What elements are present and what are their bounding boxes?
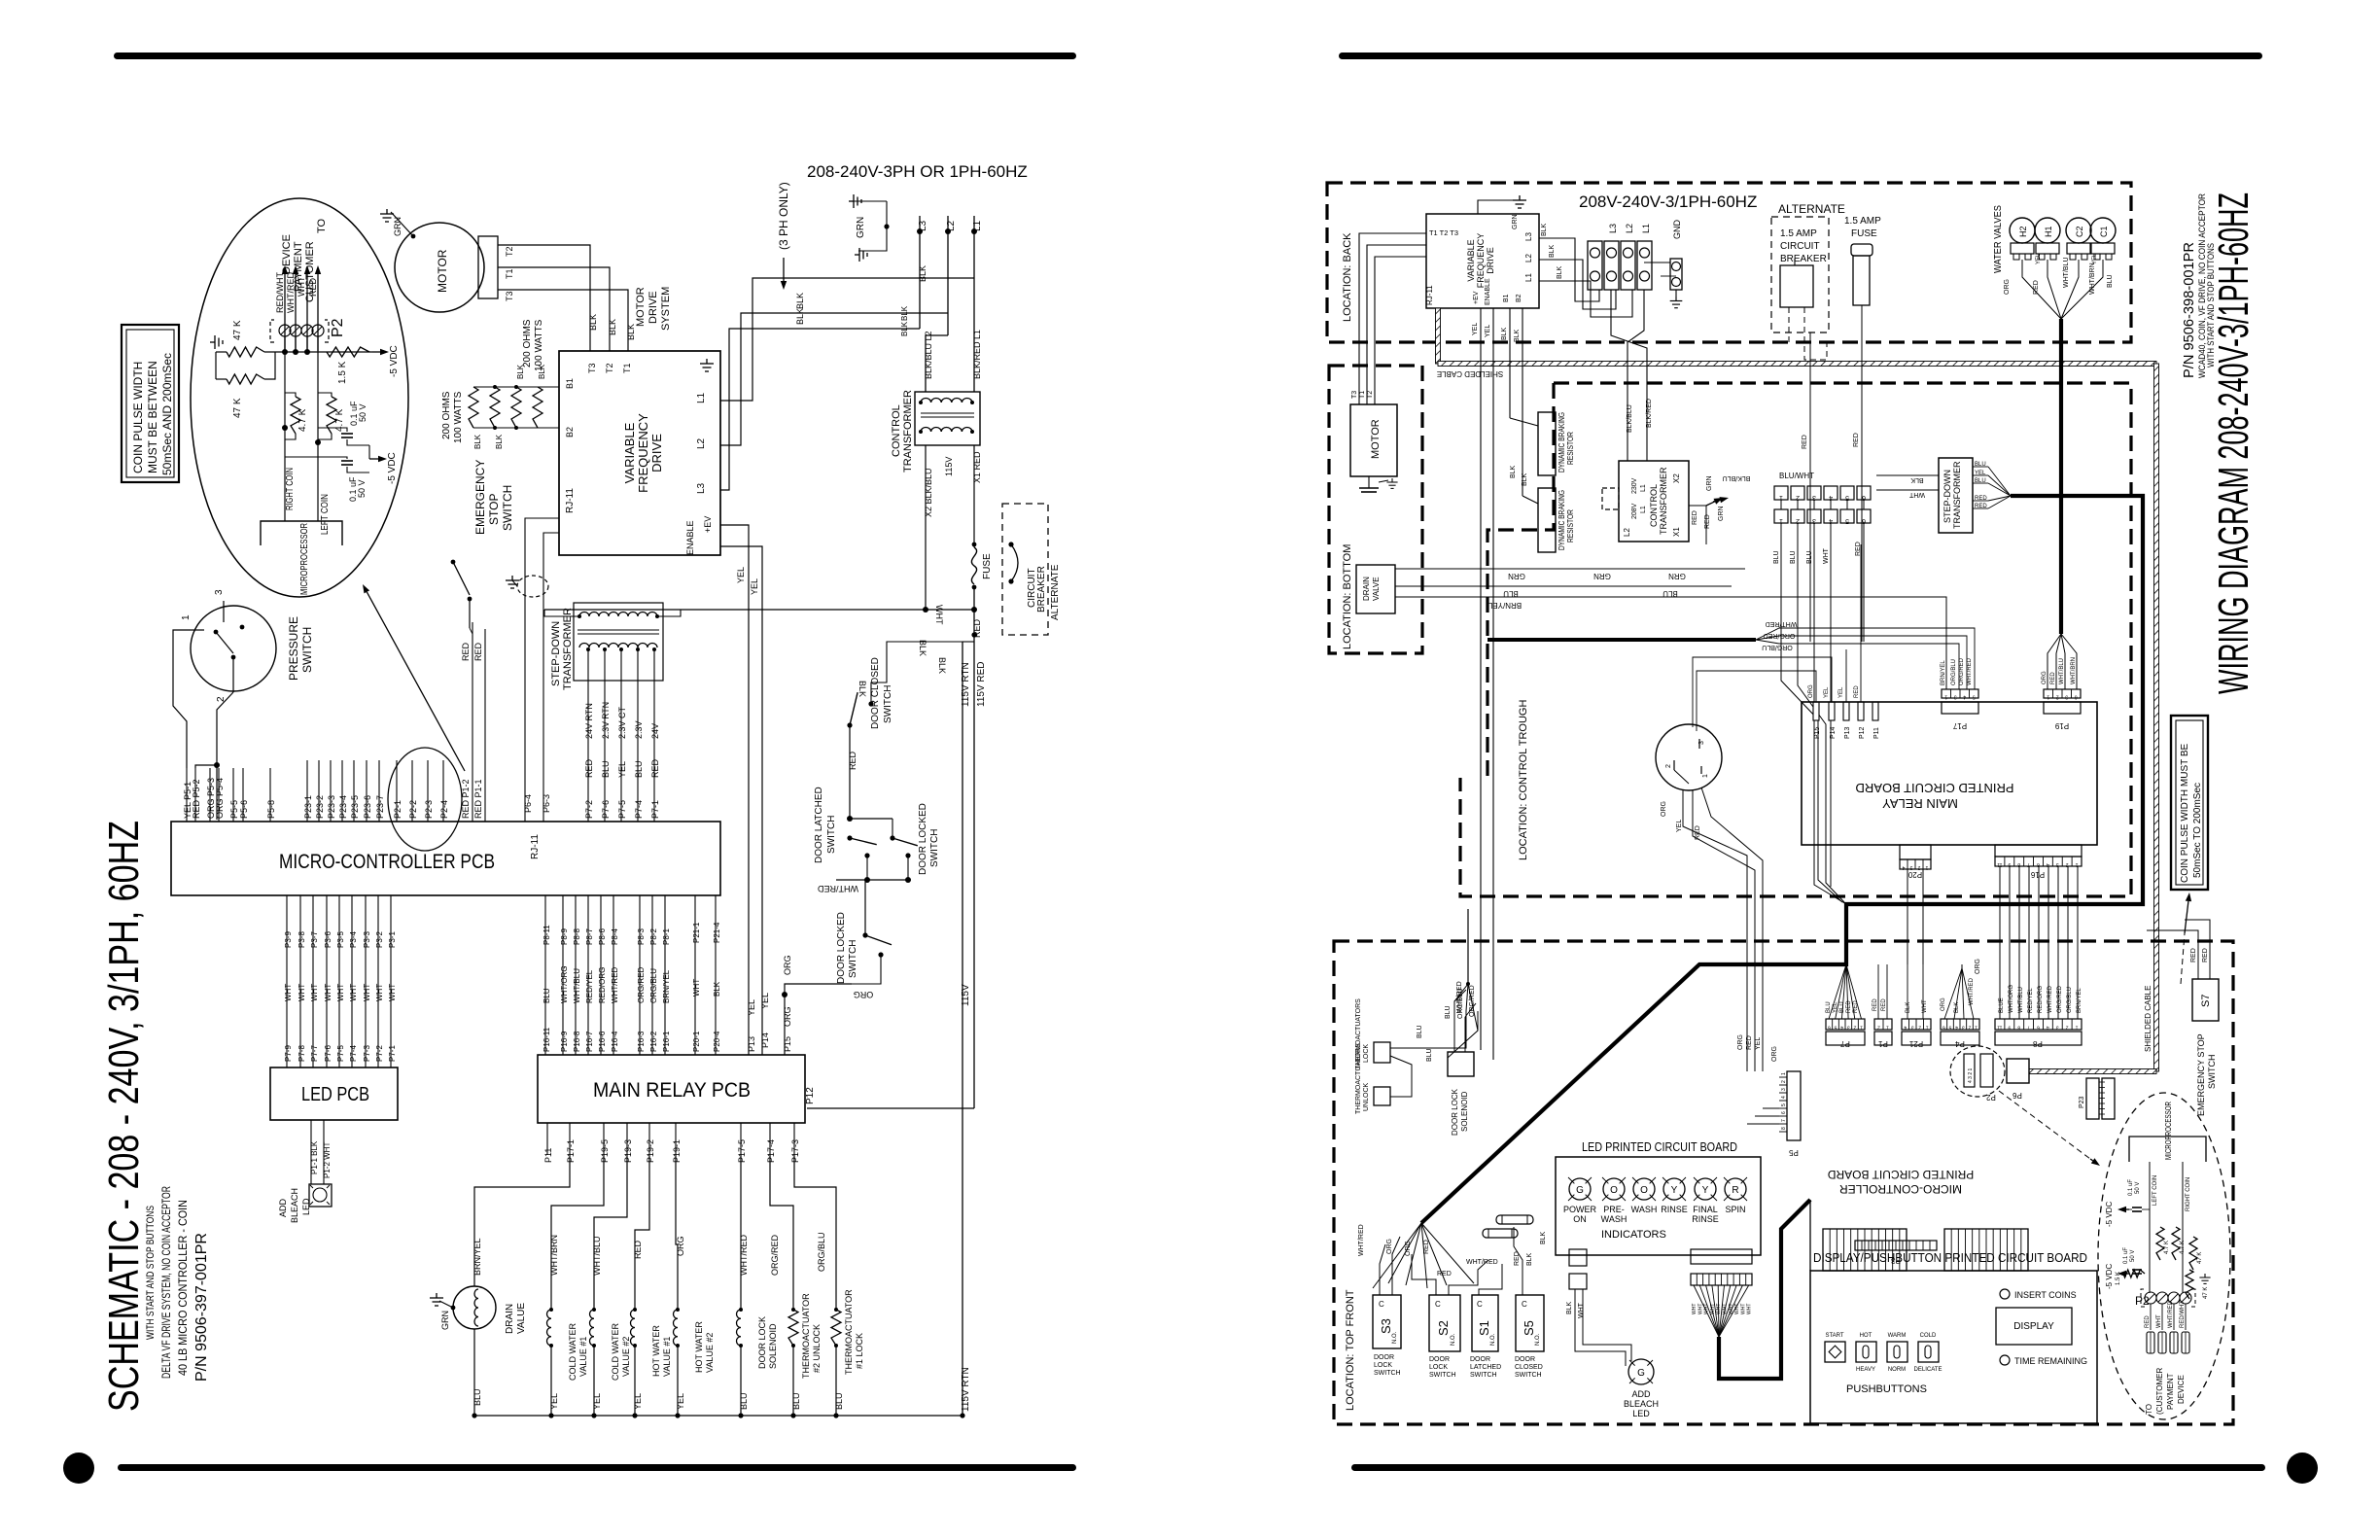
time remaining indicator	[2000, 1355, 2010, 1365]
svg-text:ORG/RED: ORG/RED	[1469, 985, 1476, 1017]
svg-text:YEL: YEL	[1485, 325, 1491, 337]
svg-text:BLK: BLK	[1954, 1002, 1960, 1013]
svg-text:GRN: GRN	[1706, 475, 1713, 491]
svg-text:BLK: BLK	[1541, 223, 1548, 236]
svg-text:RINSE: RINSE	[1661, 1205, 1688, 1214]
svg-text:P17-1: P17-1	[566, 1139, 576, 1163]
P16 to P8 wire bundle	[1999, 866, 2001, 1019]
svg-text:P2-4: P2-4	[439, 800, 449, 819]
wires P2 to resistor network	[284, 336, 286, 352]
terminal strip 1-6 row B	[1774, 509, 1788, 523]
connector P17	[1942, 689, 1978, 698]
svg-text:DRIVE: DRIVE	[647, 291, 659, 324]
svg-text:WHT/RED: WHT/RED	[1466, 1259, 1498, 1266]
svg-text:50mSec AND 200mSec: 50mSec AND 200mSec	[160, 353, 174, 475]
svg-text:P2: P2	[330, 318, 346, 337]
svg-text:BLK: BLK	[1522, 472, 1528, 486]
svg-text:BLU: BLU	[1839, 1001, 1845, 1013]
svg-text:DOOR: DOOR	[1374, 1354, 1394, 1361]
svg-text:WHT/BLU: WHT/BLU	[2018, 987, 2024, 1013]
svg-text:BLK: BLK	[937, 657, 947, 674]
svg-text:BLU: BLU	[1503, 589, 1519, 598]
payment capacitors (wiring)	[2132, 1207, 2142, 1208]
svg-text:ENABLE: ENABLE	[685, 520, 695, 555]
svg-text:4: 4	[2047, 1025, 2049, 1031]
heavy harness from step-down	[1421, 496, 2143, 1223]
pushbutton START	[1825, 1342, 1845, 1362]
svg-text:LOCK: LOCK	[1363, 1044, 1370, 1063]
svg-text:WHT: WHT	[284, 984, 293, 1001]
connector P8	[1995, 1019, 2082, 1030]
wire WHT horizontal	[544, 609, 974, 611]
hot water valve 1 branch	[635, 1155, 649, 1310]
svg-text:3: 3	[2056, 1025, 2059, 1031]
svg-text:BRN/YEL: BRN/YEL	[472, 1238, 482, 1276]
svg-text:ORG: ORG	[1405, 1241, 1412, 1256]
svg-text:2: 2	[1877, 1025, 1880, 1031]
thermoactuators unlock	[1374, 1087, 1390, 1105]
svg-text:P6-3: P6-3	[542, 794, 551, 813]
step-down outputs BLU YEL BLU RED RED	[1973, 466, 1988, 468]
svg-text:(3 PH ONLY): (3 PH ONLY)	[777, 182, 790, 250]
svg-text:RED/ORG: RED/ORG	[598, 967, 607, 1003]
svg-text:WHT: WHT	[1692, 1304, 1697, 1314]
rail jog to control transformer	[926, 335, 948, 392]
svg-text:6: 6	[2037, 1025, 2040, 1031]
svg-text:C: C	[1435, 1300, 1441, 1309]
svg-text:L1: L1	[1641, 224, 1651, 233]
svg-text:COLD: COLD	[1920, 1333, 1937, 1339]
svg-text:P2-1: P2-1	[393, 800, 402, 819]
svg-text:WHT: WHT	[1578, 1302, 1585, 1318]
ground terminal GND	[1670, 259, 1682, 290]
svg-text:T1: T1	[622, 363, 632, 373]
bundle P21/P20	[694, 895, 696, 1055]
svg-text:5: 5	[1845, 494, 1849, 501]
svg-text:P21-4: P21-4	[713, 922, 721, 943]
svg-text:SCHEMATIC - 208 - 240V, 3: SCHEMATIC - 208 - 240V, 3/1PH, 60HZ	[100, 821, 148, 1412]
svg-text:BLK/BLU: BLK/BLU	[1723, 474, 1751, 481]
svg-text:#2 UNLOCK: #2 UNLOCK	[812, 1324, 822, 1373]
svg-text:1: 1	[1926, 1025, 1929, 1031]
svg-text:3: 3	[1698, 741, 1705, 745]
svg-text:P7-6: P7-6	[601, 800, 611, 819]
svg-text:P20: P20	[1907, 870, 1922, 879]
svg-text:SWITCH: SWITCH	[848, 940, 858, 978]
svg-text:MAIN RELAY PCB: MAIN RELAY PCB	[593, 1079, 751, 1102]
svg-text:T1 T2 T3: T1 T2 T3	[1429, 230, 1458, 237]
svg-text:50 V: 50 V	[2135, 1182, 2141, 1194]
svg-text:DELTA VF DRIVE SYSTEM, NO COIN: DELTA VF DRIVE SYSTEM, NO COIN ACCEPTOR	[159, 1186, 173, 1379]
arrow to coin pulse box	[2181, 933, 2185, 984]
svg-text:P/N 9506-398-001PR: P/N 9506-398-001PR	[2181, 242, 2197, 378]
svg-text:MAIN RELAY: MAIN RELAY	[1882, 796, 1958, 811]
svg-text:INDICATORS: INDICATORS	[1601, 1229, 1666, 1241]
svg-text:WHT/ORG: WHT/ORG	[560, 965, 569, 1003]
svg-text:YEL: YEL	[1472, 323, 1479, 335]
svg-text:G: G	[1576, 1185, 1584, 1196]
svg-text:STOP: STOP	[487, 494, 501, 525]
svg-text:2: 2	[1853, 1025, 1856, 1031]
wires right/left coin	[284, 352, 286, 521]
svg-text:RED: RED	[308, 277, 318, 297]
terminal strip lower wires	[1780, 523, 1782, 593]
svg-text:RED: RED	[1854, 685, 1860, 698]
svg-text:C: C	[1477, 1300, 1483, 1309]
wire RED door chain	[849, 725, 851, 819]
svg-text:208V-240V-3/1PH-60HZ: 208V-240V-3/1PH-60HZ	[1579, 192, 1757, 211]
svg-text:P19-1: P19-1	[672, 1139, 682, 1163]
svg-text:BLK: BLK	[1501, 327, 1508, 340]
VFD to motor wires T1 T2 T3	[1359, 233, 1426, 404]
svg-text:P17-3: P17-3	[790, 1139, 800, 1163]
svg-text:TRANSFORMER: TRANSFORMER	[1952, 461, 1962, 529]
svg-text:RED: RED	[2190, 948, 2197, 962]
svg-text:DEVICE: DEVICE	[2177, 1375, 2186, 1404]
svg-text:WHT/RED: WHT/RED	[2047, 985, 2053, 1013]
svg-text:#1 LOCK: #1 LOCK	[855, 1333, 864, 1369]
svg-text:YEL: YEL	[747, 999, 756, 1016]
svg-text:WHT/BLU: WHT/BLU	[573, 968, 581, 1003]
svg-text:VARIABLE: VARIABLE	[622, 422, 637, 483]
svg-text:L1: L1	[1640, 506, 1647, 513]
svg-text:1: 1	[1925, 864, 1928, 870]
svg-text:208V: 208V	[1631, 503, 1638, 519]
svg-text:FUSE: FUSE	[982, 553, 993, 579]
svg-text:1: 1	[1944, 694, 1947, 700]
svg-text:RIGHT COIN: RIGHT COIN	[2186, 1177, 2191, 1211]
svg-text:COIN PULSE WIDTH: COIN PULSE WIDTH	[131, 362, 145, 473]
svg-text:DOOR LOCK: DOOR LOCK	[1451, 1088, 1459, 1136]
svg-text:LEFT COIN: LEFT COIN	[320, 494, 331, 535]
motor ground (wiring)	[1368, 476, 1370, 488]
svg-text:LED: LED	[1632, 1409, 1650, 1418]
svg-text:MICRO-CONTROLLER PCB: MICRO-CONTROLLER PCB	[279, 851, 495, 873]
svg-text:LED PRINTED CIRCUIT BOARD: LED PRINTED CIRCUIT BOARD	[1582, 1139, 1737, 1154]
capacitor 0.1 uF 50 V (upper)	[341, 433, 353, 435]
svg-text:6: 6	[1942, 1025, 1945, 1031]
payment device wires down (wiring)	[2150, 1304, 2152, 1330]
terminal block L3 L2 L1	[1588, 241, 1602, 290]
svg-text:PUSHBUTTONS: PUSHBUTTONS	[1846, 1383, 1927, 1395]
pushbutton WARM	[1887, 1342, 1907, 1362]
svg-text:P8-4: P8-4	[611, 928, 619, 945]
main relay PCB	[538, 1055, 805, 1123]
dynamic braking resistor 2	[1522, 496, 1538, 504]
svg-text:-5 VDC: -5 VDC	[389, 345, 400, 377]
dynamic braking resistor 1	[1510, 418, 1538, 426]
svg-text:P23-5: P23-5	[350, 795, 360, 819]
svg-text:L2: L2	[696, 437, 707, 449]
svg-text:RED/YEL: RED/YEL	[2028, 988, 2034, 1013]
svg-text:BLEACH: BLEACH	[1624, 1399, 1659, 1409]
node and RED label under fuse	[973, 585, 975, 1108]
svg-text:RED: RED	[1853, 1000, 1859, 1013]
door latched switch	[847, 835, 852, 840]
page border top rule (right page)	[1339, 52, 2262, 59]
svg-text:VALUE #1: VALUE #1	[578, 1337, 588, 1377]
svg-text:P20-4: P20-4	[713, 1031, 721, 1052]
connector P19	[2044, 689, 2081, 698]
main relay printed circuit board	[1802, 702, 2097, 845]
svg-text:P19-5: P19-5	[600, 1139, 610, 1163]
svg-text:1: 1	[2075, 1025, 2078, 1031]
svg-text:P7-2: P7-2	[584, 800, 594, 819]
svg-text:RED: RED	[2145, 1315, 2151, 1328]
svg-text:WITH START AND STOP BUTTONS: WITH START AND STOP BUTTONS	[2206, 243, 2216, 367]
svg-text:BRN/YEL: BRN/YEL	[662, 969, 671, 1003]
svg-text:P15: P15	[783, 1036, 792, 1052]
svg-text:BLK: BLK	[1549, 244, 1556, 258]
pin wires from trough	[1697, 671, 1816, 731]
svg-text:ORG: ORG	[854, 990, 874, 999]
svg-text:P19-2: P19-2	[646, 1139, 655, 1163]
svg-text:BRN/YEL: BRN/YEL	[1941, 660, 1946, 685]
svg-text:WHT: WHT	[1697, 1304, 1703, 1314]
svg-text:YEL: YEL	[1833, 1001, 1838, 1013]
VFD output wire L2	[720, 313, 948, 445]
svg-text:P21-1: P21-1	[692, 922, 701, 943]
svg-text:L1: L1	[1640, 484, 1647, 492]
svg-text:BLK: BLK	[795, 293, 805, 309]
S2 door lock switch	[1429, 1295, 1460, 1351]
svg-text:P16-8: P16-8	[573, 1031, 581, 1052]
svg-text:P7-3: P7-3	[363, 1045, 371, 1062]
svg-text:X1: X1	[1672, 527, 1681, 537]
svg-text:P5-5: P5-5	[229, 800, 239, 819]
svg-text:HOT WATER: HOT WATER	[651, 1325, 661, 1377]
svg-text:3: 3	[1781, 1088, 1787, 1091]
svg-text:ORG: ORG	[783, 955, 792, 975]
svg-text:YEL: YEL	[2036, 253, 2042, 264]
svg-text:BREAKER: BREAKER	[1780, 254, 1827, 264]
svg-text:RED: RED	[1423, 1240, 1430, 1254]
svg-text:P7-1: P7-1	[388, 1045, 397, 1062]
svg-text:P12: P12	[805, 1087, 816, 1104]
svg-text:BRN/YEL: BRN/YEL	[2077, 988, 2082, 1013]
supply rails L1 L2 L3	[973, 216, 975, 392]
drain valve (wiring)	[1356, 565, 1395, 613]
svg-text:P1-1 BLK: P1-1 BLK	[310, 1140, 319, 1174]
svg-text:YEL: YEL	[736, 567, 746, 583]
svg-text:BLK: BLK	[1557, 265, 1563, 279]
drain valve	[453, 1286, 496, 1329]
svg-text:L3: L3	[1524, 232, 1533, 241]
svg-text:ORG/BLU: ORG/BLU	[649, 968, 658, 1003]
svg-text:BLK/BLU: BLK/BLU	[1627, 404, 1633, 433]
svg-text:2: 2	[2066, 1025, 2069, 1031]
svg-text:BLK: BLK	[713, 981, 721, 997]
svg-text:DOOR: DOOR	[1515, 1356, 1535, 1363]
connector bundle P23	[306, 760, 308, 822]
micro-controller PCB	[171, 822, 720, 895]
shielded cable hatched runs	[1436, 308, 1441, 364]
svg-text:RJ-11: RJ-11	[565, 488, 576, 513]
page border bottom rule (left page)	[118, 1464, 1076, 1471]
svg-text:MICROPROCESSOR: MICROPROCESSOR	[2164, 1102, 2173, 1160]
payment resistors 4.7K 4.7K 47K 47K 1.5K (wiring)	[2156, 1227, 2164, 1260]
svg-text:S3: S3	[1379, 1318, 1393, 1334]
svg-text:ORG/RED: ORG/RED	[1959, 657, 1965, 685]
svg-text:WHT: WHT	[1908, 491, 1925, 498]
ellipse around P2 pins	[388, 748, 462, 851]
svg-text:24V: 24V	[650, 723, 660, 739]
svg-text:YEL: YEL	[549, 1393, 559, 1410]
svg-text:ORG/RED: ORG/RED	[637, 966, 646, 1003]
svg-text:TIME REMAINING: TIME REMAINING	[2014, 1356, 2087, 1366]
pressure switch (wiring)	[1656, 724, 1722, 790]
svg-text:P16: P16	[2030, 870, 2045, 879]
svg-text:BLK: BLK	[1540, 1231, 1547, 1244]
svg-text:BLU: BLU	[1426, 1048, 1433, 1062]
svg-text:7: 7	[2027, 1025, 2030, 1031]
svg-text:TO: TO	[2145, 1404, 2153, 1415]
svg-text:5: 5	[1781, 1103, 1787, 1106]
svg-text:P/N 9506-397-001PR: P/N 9506-397-001PR	[193, 1233, 210, 1382]
coin pulse width note box (wiring)	[2171, 716, 2208, 890]
svg-text:COIN PULSE WIDTH MUST BE: COIN PULSE WIDTH MUST BE	[2180, 744, 2190, 883]
svg-text:C2: C2	[2075, 226, 2084, 237]
-5 VDC supply arrow	[372, 351, 380, 353]
svg-text:COLD WATER: COLD WATER	[611, 1322, 620, 1381]
svg-text:3: 3	[1962, 1025, 1965, 1031]
svg-text:RJ-11: RJ-11	[1425, 285, 1434, 305]
svg-text:4: 4	[1829, 517, 1833, 524]
note box COIN PULSE WIDTH	[122, 325, 179, 482]
svg-text:3: 3	[1812, 494, 1816, 501]
connector row P7 P1 P21 P4	[1826, 1019, 1865, 1030]
svg-text:P7-5: P7-5	[336, 1045, 345, 1062]
svg-text:P23-1: P23-1	[303, 795, 313, 819]
svg-text:P1-2 WHT: P1-2 WHT	[323, 1142, 332, 1178]
variable frequency drive	[559, 351, 720, 555]
svg-text:115V RTN: 115V RTN	[961, 1367, 971, 1412]
svg-text:P2: P2	[1986, 1093, 1996, 1102]
svg-text:115V: 115V	[961, 984, 971, 1006]
svg-text:L2: L2	[1625, 224, 1634, 233]
svg-text:CLOSED: CLOSED	[1515, 1364, 1543, 1371]
display/pushbutton board combs	[1823, 1229, 1907, 1271]
svg-text:SWITCH: SWITCH	[2207, 1055, 2217, 1090]
svg-text:47 K: 47 K	[232, 320, 243, 340]
svg-text:FUSE: FUSE	[1851, 228, 1877, 239]
wires P1-1 P1-2 to bleach LED	[310, 1120, 312, 1184]
svg-text:L1: L1	[1524, 273, 1533, 282]
svg-text:ORG: ORG	[1941, 997, 1946, 1011]
svg-text:BLU/WHT: BLU/WHT	[1779, 472, 1814, 480]
LED PCB	[270, 1067, 398, 1120]
thermoactuator 2 unlock branch	[770, 1155, 793, 1310]
svg-text:N.O.: N.O.	[1451, 1333, 1456, 1346]
svg-text:50 V: 50 V	[357, 479, 367, 498]
svg-text:P5-6: P5-6	[239, 800, 249, 819]
svg-text:BLU: BLU	[634, 760, 644, 778]
svg-text:H1: H1	[2044, 226, 2053, 237]
svg-text:ADD: ADD	[1631, 1389, 1651, 1399]
connector P6 (wiring)	[2007, 1059, 2029, 1083]
thick dashed bottom trough and top front boxes	[1334, 941, 2233, 1424]
connector bundle P2 pins	[396, 760, 398, 822]
svg-text:2: 2	[1917, 864, 1920, 870]
svg-text:SPIN: SPIN	[1725, 1205, 1745, 1214]
svg-text:BLK: BLK	[918, 265, 927, 282]
svg-text:115V: 115V	[944, 457, 954, 476]
svg-text:DOOR LOCKED: DOOR LOCKED	[836, 912, 847, 984]
svg-text:TO: TO	[316, 218, 328, 233]
svg-text:RED: RED	[848, 751, 857, 770]
microprocessor (wiring)	[2129, 1137, 2206, 1162]
svg-text:P16-2: P16-2	[649, 1031, 658, 1052]
emergency stop switch S7	[2192, 979, 2219, 1021]
svg-text:ORG/BLU: ORG/BLU	[1762, 644, 1793, 650]
svg-text:RED/YEL: RED/YEL	[585, 969, 594, 1003]
wires terminal block down BLK/BLU BLK/RED	[1627, 290, 1644, 461]
svg-text:BLK/BLU L2: BLK/BLU L2	[924, 331, 933, 379]
svg-text:P15: P15	[1814, 726, 1821, 739]
indicator lamps G O O Y Y R	[1569, 1178, 1591, 1200]
svg-text:P23-7: P23-7	[375, 795, 385, 819]
main relay top pins P15-P11	[1813, 702, 1819, 720]
payment device signal arrows	[284, 274, 286, 351]
svg-text:H2: H2	[2018, 226, 2028, 237]
resistor 1.5 K	[327, 347, 369, 357]
svg-text:P8-1: P8-1	[662, 928, 671, 945]
svg-text:P13: P13	[1844, 726, 1851, 739]
svg-text:BLU: BLU	[791, 1392, 801, 1410]
svg-text:WATER VALVES: WATER VALVES	[1993, 205, 2004, 273]
svg-text:4: 4	[1904, 1025, 1907, 1031]
transformer output RED GRN	[1689, 505, 1706, 507]
svg-text:YEL: YEL	[750, 578, 759, 595]
svg-text:S1: S1	[1477, 1320, 1491, 1336]
svg-text:C: C	[1522, 1300, 1527, 1309]
svg-text:YEL: YEL	[617, 761, 627, 778]
svg-text:P3-8: P3-8	[297, 931, 306, 948]
svg-text:GRN: GRN	[440, 1311, 450, 1330]
location back dashed box	[1327, 183, 2131, 342]
motor terminal box	[478, 236, 498, 298]
svg-text:WHT: WHT	[1704, 1304, 1710, 1314]
svg-text:P7-1: P7-1	[650, 800, 660, 819]
svg-text:LOCATION: CONTROL TROUGH: LOCATION: CONTROL TROUGH	[1518, 700, 1529, 860]
svg-text:WHT/RED: WHT/RED	[1766, 620, 1798, 627]
svg-text:P1: P1	[1878, 1039, 1888, 1048]
svg-text:WHT: WHT	[1823, 547, 1830, 564]
display	[1996, 1308, 2072, 1345]
svg-text:+EV: +EV	[703, 516, 713, 533]
svg-text:WHT/RED: WHT/RED	[286, 272, 296, 313]
svg-text:PRINTED CIRCUIT BOARD: PRINTED CIRCUIT BOARD	[1856, 781, 2014, 795]
svg-text:50 V: 50 V	[358, 403, 367, 422]
svg-text:TRANSFORMER: TRANSFORMER	[902, 390, 914, 472]
svg-text:WHT/BLU: WHT/BLU	[592, 1237, 602, 1277]
dashed leader arrow from P2	[1999, 1091, 2090, 1159]
svg-text:P5: P5	[1789, 1148, 1799, 1157]
svg-text:GND: GND	[1672, 220, 1682, 240]
svg-text:3: 3	[1847, 1025, 1850, 1031]
svg-text:P16-4: P16-4	[611, 1031, 619, 1052]
svg-text:WHT: WHT	[310, 984, 319, 1001]
svg-text:P17-4: P17-4	[766, 1139, 776, 1163]
svg-text:RED P1-2: RED P1-2	[461, 779, 471, 819]
svg-text:WHT: WHT	[1747, 1304, 1753, 1314]
svg-text:SOLENOID: SOLENOID	[768, 1323, 778, 1369]
svg-text:BLUE: BLUE	[1999, 997, 2005, 1013]
fuse (schematic)	[971, 547, 976, 584]
svg-text:100 WATTS: 100 WATTS	[453, 391, 464, 443]
svg-text:208-240V-3PH OR 1PH-60HZ: 208-240V-3PH OR 1PH-60HZ	[807, 162, 1028, 181]
svg-text:3: 3	[1911, 1025, 1914, 1031]
